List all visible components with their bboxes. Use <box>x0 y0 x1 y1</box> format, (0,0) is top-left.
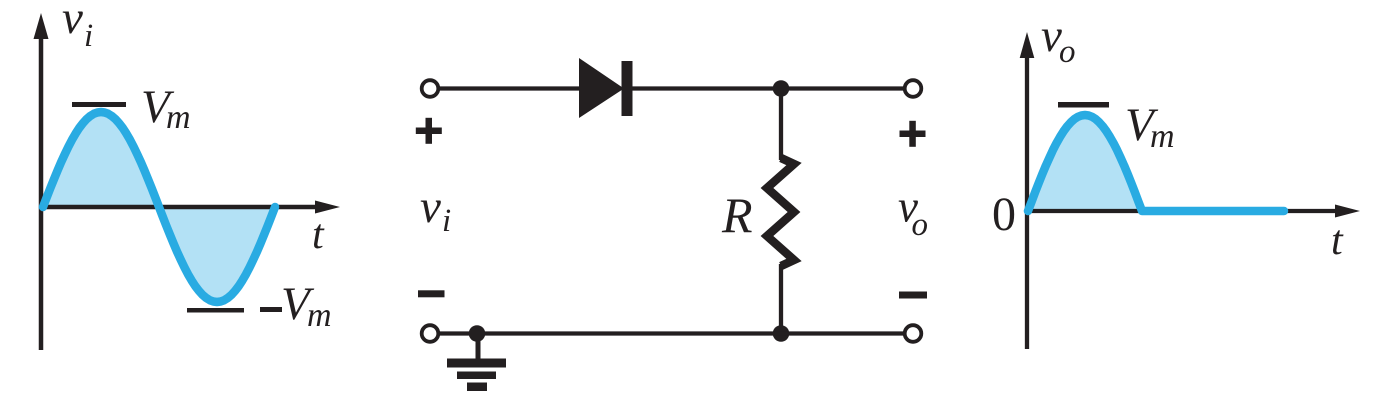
resistor R zigzag <box>767 158 794 266</box>
svg-text:t: t <box>312 212 325 258</box>
wire from top node to resistor <box>779 89 783 161</box>
Vm peak level bar (input graph) <box>72 102 126 107</box>
wire from resistor to bottom node <box>779 264 783 334</box>
input terminal bottom (open circle) <box>422 325 439 342</box>
top wire (anode side) <box>439 86 581 90</box>
minus sign (output) <box>899 292 927 299</box>
input terminal top (open circle) <box>422 80 439 97</box>
minus sign (input) <box>418 290 445 297</box>
svg-text:i: i <box>84 18 93 54</box>
top wire (cathode to output) <box>632 86 904 90</box>
axis label vi (input graph) <box>62 0 93 54</box>
-Vm trough level bar (input graph) <box>187 308 244 313</box>
svg-text:i: i <box>442 203 451 239</box>
label vi (input voltage) <box>420 181 451 239</box>
input waveform fill <box>43 112 275 302</box>
node junction dot (top of R) <box>773 80 790 97</box>
svg-text:v: v <box>62 0 83 44</box>
input sine wave vi curve <box>43 112 275 302</box>
bottom wire <box>438 331 904 335</box>
label Vm (input graph) <box>141 81 191 136</box>
output terminal bottom (open circle) <box>905 325 922 342</box>
output graph vertical axis <box>1020 32 1035 349</box>
ground symbol <box>447 334 506 392</box>
output half-sine pulse and flat line <box>1028 115 1284 211</box>
svg-text:m: m <box>166 99 191 136</box>
svg-text:o: o <box>912 207 929 243</box>
svg-text:R: R <box>721 187 753 243</box>
input graph horizontal axis (t) <box>39 201 340 214</box>
plus sign (output) <box>900 121 926 147</box>
svg-text:m: m <box>1150 118 1175 155</box>
node junction dot (bottom of R) <box>773 325 790 342</box>
ground junction dot <box>469 325 486 342</box>
svg-text:m: m <box>307 297 332 334</box>
output waveform fill <box>1028 115 1142 211</box>
svg-text:t: t <box>1331 218 1344 264</box>
output graph horizontal axis (t) <box>1025 205 1360 218</box>
diode D <box>579 58 633 118</box>
Vm peak level bar (output graph) <box>1058 102 1109 108</box>
axis label vo (output graph) <box>1041 10 1076 70</box>
output terminal top (open circle) <box>905 80 922 97</box>
svg-text:v: v <box>420 181 441 233</box>
label Vm (output graph) <box>1125 99 1175 155</box>
plus sign (input) <box>416 118 442 144</box>
svg-text:0: 0 <box>992 188 1016 241</box>
svg-text:o: o <box>1059 34 1076 70</box>
label vo (output voltage) <box>898 182 928 244</box>
label -Vm (input graph) <box>260 278 332 334</box>
input graph vertical axis <box>34 13 49 350</box>
